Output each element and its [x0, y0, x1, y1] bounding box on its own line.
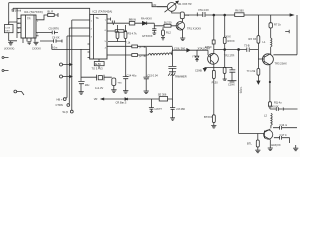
svg-text:C0XX: C0XX — [228, 82, 235, 86]
svg-text:R7 1k: R7 1k — [274, 23, 281, 27]
svg-text:GTXXXX: GTXXXX — [142, 34, 153, 38]
svg-text:HB +: HB + — [57, 97, 63, 101]
svg-text:R3 4.7k: R3 4.7k — [128, 32, 138, 36]
svg-text:1Rx: 1Rx — [85, 83, 90, 87]
svg-text:2.8 466: 2.8 466 — [176, 107, 185, 111]
svg-text:E0N0: E0N0 — [205, 45, 212, 49]
svg-text:XTA 4.0X: XTA 4.0X — [198, 8, 209, 12]
svg-text:RXXX: RXXX — [228, 39, 235, 43]
svg-text:C6 XX: C6 XX — [52, 36, 60, 40]
svg-text:CR.Bar.S: CR.Bar.S — [116, 100, 127, 104]
svg-text:RX XX: RX XX — [249, 37, 257, 41]
svg-text:W (0: W (0 — [63, 110, 69, 114]
svg-text:R6 560: R6 560 — [235, 9, 244, 13]
svg-text:IC1 (TA7XXX): IC1 (TA7XXX) — [24, 10, 43, 14]
svg-text:XXX: XXX — [5, 30, 10, 32]
svg-text:(1 TB: (1 TB — [139, 45, 146, 49]
svg-text:+xx: +xx — [185, 14, 190, 17]
svg-text:BTL: BTL — [247, 142, 252, 146]
svg-text:BL220: BL220 — [164, 21, 172, 25]
svg-text:VR: VR — [94, 97, 98, 101]
svg-text:C5 0RT6: C5 0RT6 — [49, 27, 60, 31]
svg-text:RA 4XXX: RA 4XXX — [141, 16, 152, 20]
svg-text:RL2: RL2 — [166, 30, 171, 34]
svg-text:CXXXX: CXXXX — [32, 47, 41, 51]
svg-text:(2 TB: (2 TB — [139, 54, 146, 58]
svg-text:TR3 2SAX: TR3 2SAX — [275, 61, 288, 65]
svg-text:1x1.3V: 1x1.3V — [95, 86, 103, 90]
svg-text:C17 4: C17 4 — [280, 133, 287, 137]
svg-text:YT: YT — [192, 55, 196, 59]
svg-text:1.8 PT: 1.8 PT — [154, 107, 162, 111]
svg-text:BBLW: BBLW — [129, 18, 137, 22]
svg-text:(XXXXX): (XXXXX) — [4, 47, 15, 51]
svg-text:C15 0.04: C15 0.04 — [147, 73, 158, 77]
svg-text:XXX: XXX — [226, 35, 231, 39]
svg-text:C14 m: C14 m — [280, 123, 288, 127]
svg-text:COIL 360: COIL 360 — [174, 47, 186, 51]
svg-text:TT50ml: TT50ml — [11, 9, 22, 13]
svg-text:+xx: +xx — [118, 82, 123, 85]
svg-text:BTXXX: BTXXX — [204, 115, 213, 119]
svg-text:C14 40u: C14 40u — [127, 73, 137, 77]
svg-text:R1 XXX TR: R1 XXX TR — [178, 2, 191, 6]
svg-text:TA: TA — [96, 16, 99, 20]
svg-text:7.0(4): 7.0(4) — [239, 87, 243, 94]
svg-text:73-B: 73-B — [244, 44, 250, 48]
svg-text:77-1.5k: 77-1.5k — [247, 69, 256, 73]
svg-text:TR2 2TR: TR2 2TR — [224, 53, 235, 57]
svg-text:7.1k: 7.1k — [125, 41, 131, 45]
svg-text:C0XB: C0XB — [195, 69, 202, 73]
svg-text:TRX0.0X: TRX0.0X — [268, 104, 279, 108]
svg-text:AL50: AL50 — [95, 62, 102, 66]
svg-text:COX: COX — [5, 27, 10, 29]
svg-text:CTRN: CTRN — [56, 103, 63, 107]
svg-text:CN: CN — [153, 3, 157, 7]
svg-text:TR1 X1XXX: TR1 X1XXX — [187, 26, 201, 30]
svg-text:TO 3.4V3: TO 3.4V3 — [92, 67, 104, 71]
svg-text:IC2 (TA7642A): IC2 (TA7642A) — [93, 10, 113, 14]
svg-text:TR: TR — [27, 17, 31, 21]
svg-text:3.0m: 3.0m — [52, 46, 58, 50]
svg-text:H4X(XX: H4X(XX — [271, 143, 281, 147]
svg-text:SE 306: SE 306 — [158, 92, 167, 96]
svg-text:BL R: BL R — [48, 9, 54, 13]
svg-text:PL30: PL30 — [212, 80, 219, 84]
svg-text:TRIMMER: TRIMMER — [175, 74, 187, 78]
svg-text:RQ 4u: RQ 4u — [274, 101, 282, 105]
